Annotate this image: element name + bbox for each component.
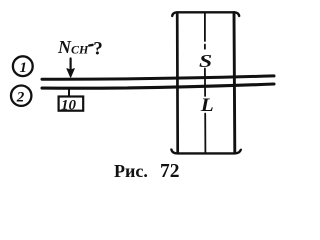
svg-text:N: N [57,37,72,57]
svg-text:2: 2 [16,90,25,106]
svg-text:Рис.: Рис. [114,161,148,181]
svg-text:10: 10 [61,97,77,113]
svg-text:L: L [200,95,214,115]
svg-text:72: 72 [160,161,180,182]
svg-text:S: S [199,52,212,71]
svg-text:?: ? [93,39,103,60]
svg-text:CH: CH [71,43,89,57]
svg-text:1: 1 [20,60,28,76]
